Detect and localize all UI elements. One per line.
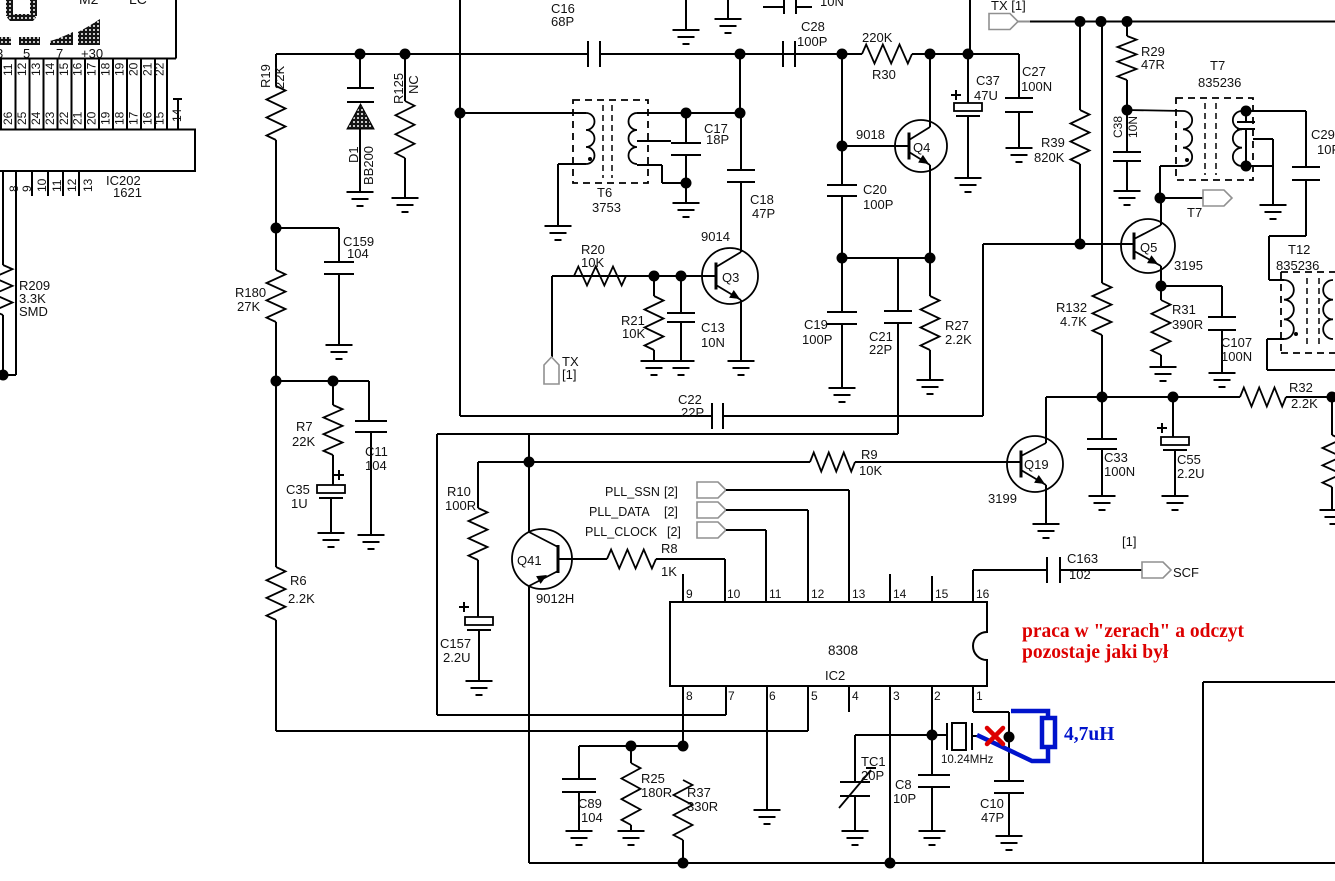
ground C27 (1006, 147, 1033, 149)
svg-text:R180: R180 (235, 285, 266, 300)
capacitor C55 2.2U (1172, 397, 1174, 437)
ground TC1 (842, 830, 869, 832)
svg-text:10K: 10K (622, 326, 645, 341)
svg-text:100P: 100P (802, 332, 832, 347)
svg-text:8: 8 (686, 689, 693, 703)
svg-text:9012H: 9012H (536, 591, 574, 606)
svg-text:R32: R32 (1289, 380, 1313, 395)
svg-text:R30: R30 (872, 67, 896, 82)
ground C55 (1162, 495, 1189, 497)
capacitor C20 100P (827, 184, 857, 186)
ground D1 (347, 191, 374, 193)
capacitor C19 100P (841, 258, 843, 312)
svg-text:[2]: [2] (664, 485, 678, 499)
node (1097, 392, 1108, 403)
resistor R32 2.2K (1240, 388, 1286, 407)
wire pin2 (931, 686, 933, 735)
wire R7 C11 node (276, 380, 369, 382)
svg-text:27K: 27K (237, 299, 260, 314)
diode D1 BB200 (359, 54, 361, 88)
capacitor C163 102 (1046, 557, 1048, 583)
svg-text:47R: 47R (1141, 57, 1165, 72)
resistor R21 10K (653, 276, 655, 296)
wire to pin7 (437, 714, 726, 716)
tag TX [1] bottom (544, 357, 559, 384)
svg-text:12: 12 (15, 62, 29, 76)
wire TC1 crystal row (855, 734, 947, 736)
svg-text:21: 21 (71, 111, 85, 125)
svg-text:SMD: SMD (19, 304, 48, 319)
ground C19 (829, 387, 856, 389)
resistor R27 2.2K (929, 258, 931, 296)
svg-text:10N: 10N (701, 335, 725, 350)
svg-text:10K: 10K (581, 255, 604, 270)
wire C29 to T12 (1269, 235, 1306, 237)
inductor 4.7uH mod blue (977, 711, 1048, 761)
node (681, 108, 692, 119)
svg-text:100R: 100R (445, 498, 476, 513)
svg-text:C10: C10 (980, 796, 1004, 811)
svg-text:22K: 22K (292, 434, 315, 449)
svg-text:D1: D1 (346, 146, 361, 163)
trimmer TC1 20P (854, 735, 856, 782)
svg-text:17: 17 (127, 111, 141, 125)
wire Q5 emitter (1160, 266, 1162, 286)
wire emitter rail (842, 257, 930, 259)
ground C37 (955, 177, 982, 179)
wire Q3 collector (740, 251, 742, 252)
wire oscillator box bottom (460, 415, 712, 417)
svg-text:8308: 8308 (828, 643, 858, 658)
wire T7 secondary bottom (1242, 165, 1273, 167)
node (1075, 239, 1086, 250)
svg-text:13: 13 (852, 587, 866, 601)
capacitor C33 100N (1101, 397, 1103, 439)
node (837, 141, 848, 152)
svg-text:22P: 22P (869, 342, 892, 357)
svg-text:10P: 10P (1317, 142, 1335, 157)
wire R9 node (478, 461, 810, 463)
svg-text:C20: C20 (863, 182, 887, 197)
node (1156, 281, 1167, 292)
svg-text:C55: C55 (1177, 452, 1201, 467)
svg-text:R132: R132 (1056, 300, 1087, 315)
svg-text:C27: C27 (1022, 64, 1046, 79)
ground R125 (392, 197, 419, 199)
svg-text:C13: C13 (701, 320, 725, 335)
resistor R25 180R (630, 746, 632, 763)
svg-text:22: 22 (153, 62, 167, 76)
ground C159 (326, 344, 353, 346)
svg-text:2.2U: 2.2U (1177, 466, 1204, 481)
svg-text:C37: C37 (976, 73, 1000, 88)
capacitor top edge cut (763, 6, 784, 8)
svg-text:C35: C35 (286, 482, 310, 497)
resistor R39 820K (1079, 22, 1081, 111)
ground C13 (668, 360, 695, 362)
node (678, 858, 689, 869)
svg-text:6: 6 (769, 689, 776, 703)
wire pin6 to ground (766, 686, 768, 810)
svg-text:11: 11 (769, 587, 782, 601)
ground R31 (1150, 366, 1177, 368)
svg-text:C38: C38 (1111, 116, 1125, 138)
svg-text:15: 15 (57, 62, 71, 76)
capacitor C38 10N (1126, 110, 1128, 152)
svg-text:R125: R125 (391, 73, 406, 104)
svg-text:13: 13 (81, 178, 95, 192)
svg-text:C157: C157 (440, 636, 471, 651)
svg-text:835236: 835236 (1198, 75, 1241, 90)
wire Q5 base feed (983, 243, 1134, 245)
node rail junctions (355, 49, 366, 60)
svg-text:1K: 1K (661, 564, 677, 579)
wire Q4 collector (929, 54, 931, 127)
svg-text:11: 11 (50, 179, 64, 192)
resistor R8 1K (607, 550, 656, 569)
ground top center 2 (727, 0, 729, 19)
capacitor C37 47U (967, 54, 969, 103)
resistor R132 4.7K (1101, 22, 1103, 284)
node (649, 271, 660, 282)
ground C89 (566, 830, 593, 832)
ground edge resistor (1320, 509, 1335, 511)
resistor R37 330R (674, 780, 693, 840)
wire T6 secondary bottom (637, 164, 662, 166)
ground top center (685, 0, 687, 30)
svg-text:C18: C18 (750, 192, 774, 207)
transistor Q4 9018 (895, 120, 947, 172)
LCD seven-segment digit (6, 0, 13, 16)
svg-text:[2]: [2] (664, 505, 678, 519)
svg-text:9018: 9018 (856, 127, 885, 142)
svg-text:104: 104 (365, 458, 387, 473)
resistor R7 (332, 381, 334, 405)
capacitor C27 100N (1018, 54, 1020, 98)
wire T12 primary bottom (1267, 338, 1284, 340)
node (681, 178, 692, 189)
wire pin9 column (15, 171, 17, 375)
svg-text:19: 19 (113, 62, 127, 76)
resistor R29 47R (1126, 22, 1128, 37)
ground Q19 (1033, 523, 1060, 525)
svg-text:C28: C28 (801, 19, 825, 34)
svg-text:Q41: Q41 (517, 553, 542, 568)
wire bottom rail (529, 862, 1335, 864)
svg-text:24: 24 (29, 111, 43, 125)
svg-text:3753: 3753 (592, 200, 621, 215)
crystal 10.24MHz (946, 723, 948, 750)
node R180 bottom (271, 376, 282, 387)
node (1155, 193, 1166, 204)
svg-text:praca w "zerach" a odczyt: praca w "zerach" a odczyt (1022, 621, 1245, 642)
resistor R20 10K (574, 267, 626, 286)
svg-text:R39: R39 (1041, 135, 1065, 150)
capacitor C89 104 (578, 746, 580, 779)
svg-text:R19: R19 (258, 64, 273, 88)
svg-text:C19: C19 (804, 317, 828, 332)
svg-text:TX [1]: TX [1] (991, 0, 1026, 13)
svg-text:R9: R9 (861, 447, 878, 462)
wire pin8 column (2, 171, 4, 265)
svg-text:104: 104 (347, 246, 369, 261)
svg-text:PLL_DATA: PLL_DATA (589, 505, 650, 519)
svg-text:2.2K: 2.2K (1291, 396, 1318, 411)
svg-text:18: 18 (99, 62, 113, 76)
svg-text:4: 4 (852, 689, 859, 703)
capacitor C18 47P (739, 54, 741, 113)
resistor R9 10K (810, 453, 855, 472)
transformer T7 835236 (1176, 98, 1253, 180)
node (837, 253, 848, 264)
resistor R19 (275, 54, 277, 86)
svg-text:100P: 100P (797, 34, 827, 49)
capacitor C16 68P (587, 41, 589, 67)
capacitor C22 22P (711, 403, 713, 429)
svg-text:835236: 835236 (1276, 258, 1319, 273)
svg-text:15: 15 (935, 587, 949, 601)
resistor R31 390R (1160, 286, 1162, 300)
wire pin4 stub (848, 686, 850, 712)
wire Q41 base (558, 558, 607, 560)
wire oscillator box right edge (982, 244, 984, 416)
ground C107 (1209, 372, 1236, 374)
svg-text:20: 20 (127, 62, 141, 76)
svg-text:2: 2 (934, 689, 941, 703)
node (1004, 732, 1015, 743)
svg-text:10P: 10P (893, 791, 916, 806)
wire R6 to pin5 (275, 620, 277, 731)
capacitor C29 10P (1305, 111, 1307, 167)
svg-text:10: 10 (35, 178, 49, 192)
svg-text:9: 9 (686, 587, 693, 601)
transformer T6 3753 (573, 100, 648, 183)
wire R9 to Q19 base (855, 461, 1021, 463)
svg-text:1621: 1621 (113, 185, 142, 200)
wire node row y397 (1046, 396, 1240, 398)
wire C21 to pin7 routing top (437, 433, 898, 435)
ground R27 (917, 379, 944, 381)
pin 14 stub (173, 98, 182, 100)
node (678, 741, 689, 752)
LCD signal wedge large (78, 19, 100, 45)
wire R20 to TX tag (551, 276, 553, 357)
LCD display module outline (175, 0, 177, 59)
svg-text:T7: T7 (1187, 205, 1202, 220)
transistor Q19 3199 (1007, 436, 1063, 492)
wire T7 primary bottom (1160, 165, 1183, 167)
node (927, 730, 938, 741)
wire R209 to pin9 (2, 315, 4, 375)
svg-text:1: 1 (976, 689, 983, 703)
svg-text:IC2: IC2 (825, 668, 845, 683)
transistor Q5 3195 (1121, 219, 1175, 273)
svg-text:1U: 1U (291, 496, 308, 511)
svg-text:Q3: Q3 (722, 270, 739, 285)
ground T6 (545, 225, 572, 227)
capacitor C8 10P (931, 735, 933, 775)
svg-text:12: 12 (65, 178, 79, 192)
svg-text:2.2K: 2.2K (288, 591, 315, 606)
svg-text:[1]: [1] (562, 367, 576, 382)
svg-text:26: 26 (1, 111, 15, 125)
svg-text:C11: C11 (365, 444, 388, 459)
wire PLL_SSN to pin13 (726, 489, 849, 491)
wire PLL_DATA to pin12 (726, 509, 808, 511)
wire base to Q4 (842, 145, 909, 147)
ground C157 (466, 680, 493, 682)
svg-text:BB200: BB200 (361, 146, 376, 185)
ground C38 (1114, 190, 1141, 192)
node (1122, 105, 1133, 116)
svg-text:T6: T6 (597, 185, 612, 200)
svg-text:C8: C8 (895, 777, 912, 792)
svg-text:15: 15 (153, 111, 167, 125)
capacitor T7 tank (1245, 111, 1247, 122)
wire C89 R25 node (579, 745, 683, 747)
svg-text:11: 11 (1, 63, 15, 76)
svg-text:Q4: Q4 (913, 140, 930, 155)
node (1241, 106, 1252, 117)
svg-text:100N: 100N (1021, 79, 1052, 94)
ground C33 (1089, 495, 1116, 497)
capacitor C35 1U (334, 474, 344, 476)
svg-text:19: 19 (99, 111, 113, 125)
wire Q3 base (552, 275, 716, 277)
LCD signal wedge small (50, 32, 73, 45)
svg-text:17: 17 (85, 62, 99, 76)
wire T6 mid tap (637, 140, 671, 142)
ground C17 (673, 202, 700, 204)
svg-text:C107: C107 (1221, 335, 1252, 350)
svg-text:pozostaje jaki był: pozostaje jaki był (1022, 642, 1169, 663)
wire lower box left edge (436, 434, 438, 715)
svg-text:4,7uH: 4,7uH (1064, 724, 1114, 745)
wire T7 primary top (1127, 110, 1183, 111)
svg-text:R7: R7 (296, 419, 313, 434)
svg-text:100N: 100N (1221, 349, 1252, 364)
svg-text:LC: LC (129, 0, 147, 7)
capacitor C17 18P (685, 113, 687, 143)
svg-text:47P: 47P (981, 810, 1004, 825)
svg-text:Q5: Q5 (1140, 240, 1157, 255)
svg-text:2.2U: 2.2U (443, 650, 470, 665)
wire R8 to pin10 (656, 558, 725, 560)
svg-text:T7: T7 (1210, 58, 1225, 73)
wire bottom right box (1202, 682, 1204, 863)
transistor Q41 9012H (512, 529, 572, 589)
svg-text:18P: 18P (706, 132, 729, 147)
svg-text:10.24MHz: 10.24MHz (941, 754, 994, 766)
wire pin8 (682, 686, 684, 746)
svg-text:390R: 390R (1172, 317, 1203, 332)
svg-text:PLL_SSN: PLL_SSN (605, 485, 660, 499)
svg-text:3195: 3195 (1174, 258, 1203, 273)
ground C35 (318, 532, 345, 534)
svg-text:R25: R25 (641, 771, 665, 786)
svg-text:C29: C29 (1311, 127, 1335, 142)
wire T7 center tap (1253, 138, 1273, 140)
capacitor C10 47P (994, 780, 1024, 782)
svg-text:TC1: TC1 (861, 754, 886, 769)
svg-text:PLL_CLOCK: PLL_CLOCK (585, 525, 658, 539)
ground C11 (358, 534, 385, 536)
svg-text:68P: 68P (551, 14, 574, 29)
svg-text:14: 14 (893, 587, 907, 601)
wire T6 primary bottom to ground (558, 163, 586, 165)
wire T7 secondary top (1242, 110, 1306, 112)
wire top stub x970 (969, 0, 971, 54)
svg-text:4.7K: 4.7K (1060, 314, 1087, 329)
svg-text:R6: R6 (290, 573, 307, 588)
svg-text:R31: R31 (1172, 302, 1196, 317)
wire Q4 emitter (929, 165, 931, 258)
node (455, 108, 466, 119)
svg-text:R37: R37 (687, 785, 711, 800)
node (524, 457, 535, 468)
svg-text:22P: 22P (681, 405, 704, 420)
resistor R209 (0, 265, 13, 315)
ground C10 (996, 835, 1023, 837)
svg-text:14: 14 (43, 62, 57, 76)
IC2 pin stubs top (682, 574, 684, 602)
svg-text:8: 8 (7, 185, 21, 192)
wire T6 secondary top (637, 112, 740, 114)
capacitor C28 100P (782, 41, 784, 67)
IC IC2 8308 (670, 602, 987, 686)
ground R25 (618, 830, 645, 832)
capacitor C21 22P (897, 258, 899, 311)
capacitor C11 (368, 381, 370, 421)
svg-text:C163: C163 (1067, 551, 1098, 566)
wire pin1 (972, 686, 974, 712)
svg-text:Q19: Q19 (1024, 457, 1049, 472)
svg-text:47P: 47P (752, 206, 775, 221)
IC202 bottom pin stubs (31, 171, 33, 196)
svg-text:47U: 47U (974, 88, 998, 103)
ground R21 (641, 360, 668, 362)
wire to T6 (460, 112, 586, 114)
svg-text:10N: 10N (820, 0, 844, 9)
node R19 bottom (271, 223, 282, 234)
wire Q4 base column (841, 54, 843, 185)
wire Q41 emitter (528, 586, 530, 863)
wire oscillator box left edge (459, 0, 461, 416)
display connector ladder (0, 59, 2, 130)
svg-text:T12: T12 (1288, 242, 1310, 257)
svg-text:3199: 3199 (988, 491, 1017, 506)
svg-text:10K: 10K (859, 463, 882, 478)
resistor R10 100R (477, 462, 479, 508)
wire Q19 collector (1045, 397, 1047, 443)
svg-text:C33: C33 (1104, 450, 1128, 465)
resistor R33 edge (1331, 397, 1333, 435)
ground C8 (919, 830, 946, 832)
svg-text:10N: 10N (1126, 116, 1140, 138)
svg-text:23: 23 (43, 111, 57, 125)
svg-text:100P: 100P (863, 197, 893, 212)
wire pin16 to C163 (973, 569, 1047, 571)
capacitor C107 100N (1161, 285, 1222, 287)
capacitor C13 10N (680, 276, 682, 313)
wire pin3 to rail (889, 686, 891, 863)
ground Q3 (728, 360, 755, 362)
tag T7 (1160, 197, 1203, 199)
svg-text:16: 16 (71, 62, 85, 76)
svg-text:180R: 180R (641, 785, 672, 800)
wire Q41 collector (528, 462, 530, 532)
svg-text:R8: R8 (661, 541, 678, 556)
